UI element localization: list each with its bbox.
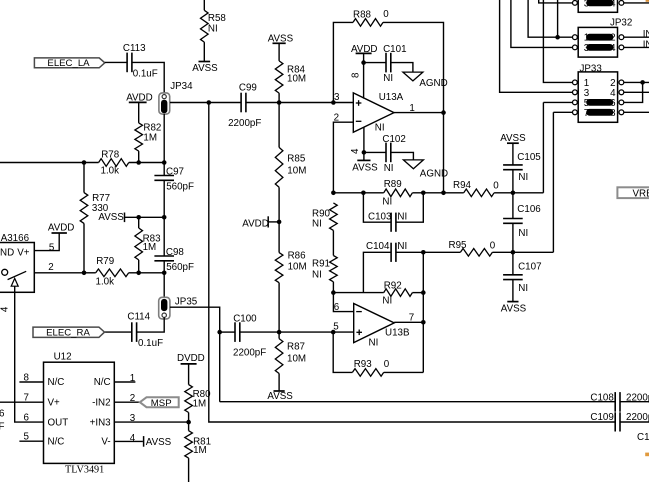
wire C98 to JP35 [163, 273, 165, 298]
svg-text:C107: C107 [518, 261, 541, 272]
svg-text:IN: IN [643, 39, 649, 50]
capacitor C113 [126, 53, 128, 73]
svg-text:ELEC_RA: ELEC_RA [46, 328, 90, 339]
svg-text:V+: V+ [17, 247, 30, 258]
svg-text:2200pF: 2200pF [233, 348, 266, 359]
svg-text:NI: NI [369, 337, 379, 348]
svg-text:V+: V+ [48, 397, 61, 408]
svg-text:R93: R93 [354, 359, 373, 370]
wire C114 to ELEC_RA [105, 331, 132, 333]
svg-text:AVSS: AVSS [352, 163, 378, 174]
resistor R95 0 [423, 251, 460, 253]
wire R82 to row [138, 151, 140, 162]
svg-text:6: 6 [24, 413, 30, 424]
svg-text:C106: C106 [517, 204, 541, 215]
op-amp U13A [353, 93, 394, 132]
wire AVDD to R82 [138, 102, 140, 123]
svg-text:R78: R78 [101, 150, 120, 161]
resistor R91 NI [330, 256, 338, 282]
analog switch U? (A3166, partial) [0, 243, 34, 293]
svg-text:JP32: JP32 [610, 17, 632, 28]
resistor R87 10M [278, 332, 280, 339]
wire JP35 bottom to C114 [137, 317, 165, 332]
svg-text:N/C: N/C [48, 436, 65, 447]
svg-text:4: 4 [130, 433, 136, 444]
wire JP33 pin2 right [624, 81, 649, 83]
shunt bar JP31 [586, 0, 613, 6]
svg-text:NI: NI [382, 197, 392, 208]
svg-text:NI: NI [397, 241, 407, 252]
node C100/JP35 column [217, 330, 222, 335]
resistor R83 1M [138, 217, 140, 228]
ground AGND (C102) [403, 160, 423, 169]
svg-text:R92: R92 [384, 280, 402, 291]
svg-text:C109: C109 [590, 412, 613, 423]
capacitor C107 NI [512, 252, 514, 274]
wire R93 left leg [333, 332, 352, 372]
switch arrow [11, 278, 18, 286]
jumper JP35 [159, 297, 170, 319]
wire JP33 pin8 right [624, 111, 649, 113]
svg-text:1M: 1M [143, 132, 157, 143]
node R80/R81/+IN3 [186, 420, 191, 425]
node C103 right [421, 191, 426, 196]
wire R93 right leg [384, 371, 424, 373]
wire R95 row to JP33 pin7 [552, 112, 554, 252]
capacitor C98 560pF [163, 217, 165, 256]
wire R78 to JP34 column [129, 162, 164, 164]
svg-text:10M: 10M [287, 73, 306, 84]
capacitor C99 2200pF [240, 93, 242, 113]
svg-text:N/C: N/C [48, 377, 65, 388]
shunt bar JP32 1-2 [586, 34, 613, 41]
node row/JP34 column [162, 160, 167, 165]
svg-text:C108: C108 [590, 392, 614, 403]
svg-text:R94: R94 [453, 180, 472, 191]
svg-text:NI: NI [383, 73, 393, 84]
wire R58 to AVSS [203, 42, 205, 61]
node R91/pin6 [331, 290, 336, 295]
pin circles JP31 [573, 1, 578, 6]
header JP32 [578, 27, 617, 57]
wire AVSS row [125, 216, 165, 218]
wire JP31 pin3 left [539, 0, 573, 3]
wire R88 right leg [383, 22, 444, 192]
svg-text:U12: U12 [54, 351, 72, 362]
capacitor C106 NI [512, 193, 514, 219]
resistor R90 NI [330, 203, 338, 231]
svg-text:OUT: OUT [48, 417, 69, 428]
wire C99 to R84 node [246, 102, 353, 104]
switch pole circle [2, 269, 8, 275]
svg-text:5: 5 [49, 242, 55, 253]
svg-text:10M: 10M [287, 354, 306, 365]
svg-text:NI: NI [518, 228, 528, 239]
net flag VREF (clipped) [617, 187, 649, 198]
svg-text:4: 4 [350, 148, 361, 154]
svg-text:R95: R95 [449, 240, 468, 251]
svg-text:-IN2: -IN2 [92, 397, 111, 408]
resistor R85 10M [278, 103, 280, 148]
svg-text:96: 96 [0, 408, 5, 419]
wire JP33 pin7 [553, 111, 572, 113]
resistor R88 0 [353, 19, 383, 27]
wire bus drop to C109 line [209, 103, 615, 423]
svg-text:ELEC_LA: ELEC_LA [47, 58, 90, 69]
svg-text:NI: NI [208, 23, 218, 34]
power AVSS (R58) [199, 61, 211, 63]
resistor R84 10M [278, 43, 280, 61]
resistor R80 1M [188, 364, 190, 385]
node R79/R83 [136, 271, 141, 276]
capacitor C102 NI [364, 151, 386, 153]
node C103 left [361, 191, 366, 196]
wire JP31 pin4 right [624, 2, 649, 4]
header JP33 [578, 72, 617, 122]
wire ELEC_LA to C113 [105, 61, 127, 63]
node R94/C105/C106 [511, 191, 516, 196]
svg-text:C98: C98 [166, 247, 185, 258]
svg-text:+IN3: +IN3 [90, 417, 112, 428]
wire JP33 pin3 [500, 0, 573, 92]
svg-text:JP35: JP35 [175, 296, 198, 307]
svg-text:AVDD: AVDD [242, 219, 268, 230]
svg-text:10M: 10M [287, 166, 306, 177]
ground AGND (C101) [403, 72, 423, 81]
svg-text:0.1uF: 0.1uF [133, 69, 158, 80]
svg-text:3: 3 [334, 92, 340, 103]
svg-text:2: 2 [48, 262, 53, 273]
minus input mark U13A [356, 120, 362, 122]
node R78/R77 [82, 160, 87, 165]
comparator U12 TLV3491 [44, 362, 115, 463]
svg-text:NI: NI [312, 219, 322, 230]
svg-text:R85: R85 [287, 154, 306, 165]
op-amp U13B [354, 304, 395, 343]
jumper JP34 [159, 93, 170, 114]
svg-text:2200pF: 2200pF [228, 118, 261, 129]
wire JP32 pin4 to IN label [624, 46, 649, 48]
svg-text:ND: ND [0, 247, 14, 258]
svg-text:F: F [0, 421, 5, 432]
wire C101 to AGND [391, 63, 413, 73]
wire JP35 side to bus corner [170, 307, 220, 402]
wire JP33 pin4 right [624, 91, 649, 93]
svg-text:R88: R88 [353, 10, 372, 21]
power AVSS (C107) [507, 301, 518, 303]
svg-text:NI: NI [375, 123, 385, 134]
minus input mark U13B [356, 311, 362, 313]
wire JP33 pin1 [543, 0, 572, 82]
resistor R92 NI [384, 289, 413, 297]
wire JP32 pin1 [528, 0, 573, 37]
power AVSS (U13A pin4) [363, 152, 365, 160]
svg-text:1M: 1M [143, 242, 157, 253]
svg-text:C102: C102 [382, 134, 405, 145]
svg-text:C99: C99 [239, 82, 257, 93]
svg-text:JP34: JP34 [170, 81, 193, 92]
node R95/C106/C107 [511, 250, 516, 255]
svg-text:AVSS: AVSS [267, 391, 293, 402]
header JP31 (partial) [578, 0, 617, 12]
wire JP33 pin5 [543, 101, 572, 103]
svg-text:NI: NI [384, 163, 394, 174]
node pin2/R77/R79 [82, 271, 87, 276]
wire C100 to U13B pin5 [240, 331, 354, 333]
svg-text:AVSS: AVSS [192, 63, 218, 74]
wire R89 row left [333, 192, 383, 194]
wire JP32 pin3 [511, 0, 573, 47]
text fragment (orange, clipped) [645, 453, 649, 457]
svg-text:0: 0 [490, 241, 496, 252]
capacitor C97 560pF [163, 114, 165, 176]
svg-text:0: 0 [384, 359, 390, 370]
svg-text:N/C: N/C [94, 377, 111, 388]
svg-text:A3166: A3166 [1, 233, 30, 244]
shunt bar JP32 3-4 [586, 44, 613, 51]
svg-text:V-: V- [101, 437, 110, 448]
power AVSS (U12 pin4) [143, 436, 145, 447]
net flag ELEC_LA [34, 58, 104, 68]
svg-text:NI: NI [397, 212, 407, 223]
svg-text:1.0k: 1.0k [101, 166, 120, 177]
resistor R89 NI [384, 189, 413, 197]
svg-text:1M: 1M [193, 399, 207, 410]
node AVSS/C97-C98 [162, 215, 167, 220]
wire C97 to AVSS row [163, 180, 165, 217]
svg-text:AGND: AGND [420, 169, 448, 180]
wire C113 to JP34 [132, 62, 164, 94]
svg-text:C101: C101 [383, 44, 406, 55]
resistor R86 10M [278, 222, 280, 253]
svg-text:NI: NI [518, 172, 528, 183]
svg-text:C104: C104 [366, 241, 390, 252]
capacitor C114 0.1uF [131, 322, 133, 342]
wire output column U13B [422, 252, 424, 372]
node AVSS/R83 [136, 215, 141, 220]
resistor R77 330 [83, 163, 85, 193]
net flag ELEC_RA [33, 327, 105, 337]
capacitor C101 NI [364, 62, 386, 64]
svg-text:AGND: AGND [419, 78, 447, 89]
svg-text:0.1uF: 0.1uF [138, 338, 163, 349]
node pin4/C102 [362, 150, 367, 155]
svg-text:R91: R91 [312, 258, 330, 269]
node output U13B [421, 320, 426, 325]
svg-text:AVSS: AVSS [501, 303, 527, 314]
wire R91 to R92 row [332, 282, 334, 293]
wire R90-R91 [332, 230, 334, 255]
svg-text:C105: C105 [517, 152, 541, 163]
resistor R58 NI [201, 10, 209, 42]
svg-text:AVSS: AVSS [98, 212, 124, 223]
wire JP33 pin2 to pin6 [624, 82, 643, 102]
svg-text:560pF: 560pF [166, 182, 194, 193]
wire R88 left leg [333, 22, 353, 102]
node R79/C98/JP35 [162, 271, 167, 276]
svg-text:R86: R86 [288, 251, 307, 262]
node C104 col/R92 [421, 290, 426, 295]
shunt bar JP33 5-6 [586, 99, 613, 106]
svg-text:R79: R79 [96, 256, 114, 267]
switch lever [8, 271, 27, 279]
capacitor C105 NI [512, 143, 514, 165]
wire R94 row to JP33 pin5 [542, 102, 544, 192]
resistor R82 1M [135, 123, 143, 151]
capacitor C104 NI [363, 252, 391, 292]
node +in feedback [331, 100, 336, 105]
node AVDD/R85/R86 [277, 220, 282, 225]
wire top edge to R58 [203, 0, 205, 10]
shunt bar JP33 7-8 [586, 109, 613, 116]
resistor R93 0 [352, 369, 383, 377]
svg-text:NI: NI [382, 296, 392, 307]
node pin8/C101 [361, 60, 366, 65]
svg-text:JP33: JP33 [580, 63, 603, 74]
node pin5/R93 col [331, 330, 336, 335]
node JP33 pin2 [640, 80, 645, 85]
node R86/R87 [277, 330, 282, 335]
wire C98 to R79 row [163, 261, 165, 273]
svg-text:10M: 10M [288, 261, 307, 272]
net flag MSP [140, 397, 179, 407]
svg-text:2200pF: 2200pF [626, 412, 649, 423]
power AVSS (R87) [274, 390, 285, 392]
wire R92 row [333, 292, 383, 294]
svg-text:4: 4 [0, 306, 10, 312]
svg-text:C97: C97 [166, 167, 184, 178]
node JP32 pin1 tee [555, 35, 560, 40]
svg-text:VREF: VREF [633, 188, 649, 199]
node C104/R95/output col [421, 250, 426, 255]
wire C102 to AGND [391, 152, 414, 160]
node R84/R85 [277, 100, 282, 105]
svg-text:1M: 1M [193, 445, 207, 456]
svg-text:U13A: U13A [379, 92, 404, 103]
svg-text:C103: C103 [368, 212, 392, 223]
power AVDD (A3166) [52, 232, 67, 234]
capacitor C103 NI [363, 193, 391, 222]
pin circles JP33 [573, 80, 578, 85]
node R88 leg/R94 [441, 191, 446, 196]
wire C108 bus line [220, 401, 616, 403]
svg-text:TLV3491: TLV3491 [65, 464, 104, 475]
svg-text:U13B: U13B [385, 328, 410, 339]
capacitor C109 2200pF [614, 412, 616, 431]
svg-text:NI: NI [518, 283, 528, 294]
svg-text:C113: C113 [123, 43, 146, 54]
node pin2 col/R90 [331, 191, 336, 196]
node output U13A [441, 110, 446, 115]
pin circles JP32 [573, 35, 578, 40]
resistor R81 1M [188, 422, 190, 431]
svg-text:C114: C114 [127, 312, 150, 323]
svg-text:0: 0 [383, 9, 389, 20]
plus input mark U13A [356, 102, 362, 104]
plus input mark U13B [356, 331, 362, 333]
svg-text:R89: R89 [384, 179, 402, 190]
svg-text:C100: C100 [233, 314, 257, 325]
svg-text:AVDD: AVDD [48, 223, 75, 234]
resistor R94 0 [444, 192, 464, 194]
svg-text:MSP: MSP [151, 398, 172, 409]
svg-text:R87: R87 [287, 342, 305, 353]
node R78/R82 [136, 160, 141, 165]
wire R81 to bottom edge [188, 458, 190, 482]
svg-text:0: 0 [493, 181, 499, 192]
wire row to left edge (R78 row) [0, 162, 99, 164]
svg-text:1.0k: 1.0k [96, 277, 115, 288]
wire JP32 pin2 to IN label [624, 36, 649, 38]
wire R89 row right [412, 192, 443, 194]
svg-text:560pF: 560pF [166, 262, 194, 273]
node bus drop (C109 line) [207, 100, 212, 105]
wire JP34 to C99 [170, 102, 241, 104]
svg-text:NI: NI [312, 269, 322, 280]
svg-text:DVDD: DVDD [177, 353, 205, 364]
resistor R79 1.0k [96, 269, 129, 277]
wire vertical to JP32 pin1 node [557, 0, 559, 37]
capacitor C100 2200pF [220, 331, 235, 333]
resistor R78 1.0k [99, 159, 129, 167]
svg-text:8: 8 [351, 72, 362, 78]
svg-text:AVSS: AVSS [146, 437, 172, 448]
svg-text:C110: C110 [637, 432, 649, 443]
capacitor C108 2200pF [614, 392, 616, 412]
